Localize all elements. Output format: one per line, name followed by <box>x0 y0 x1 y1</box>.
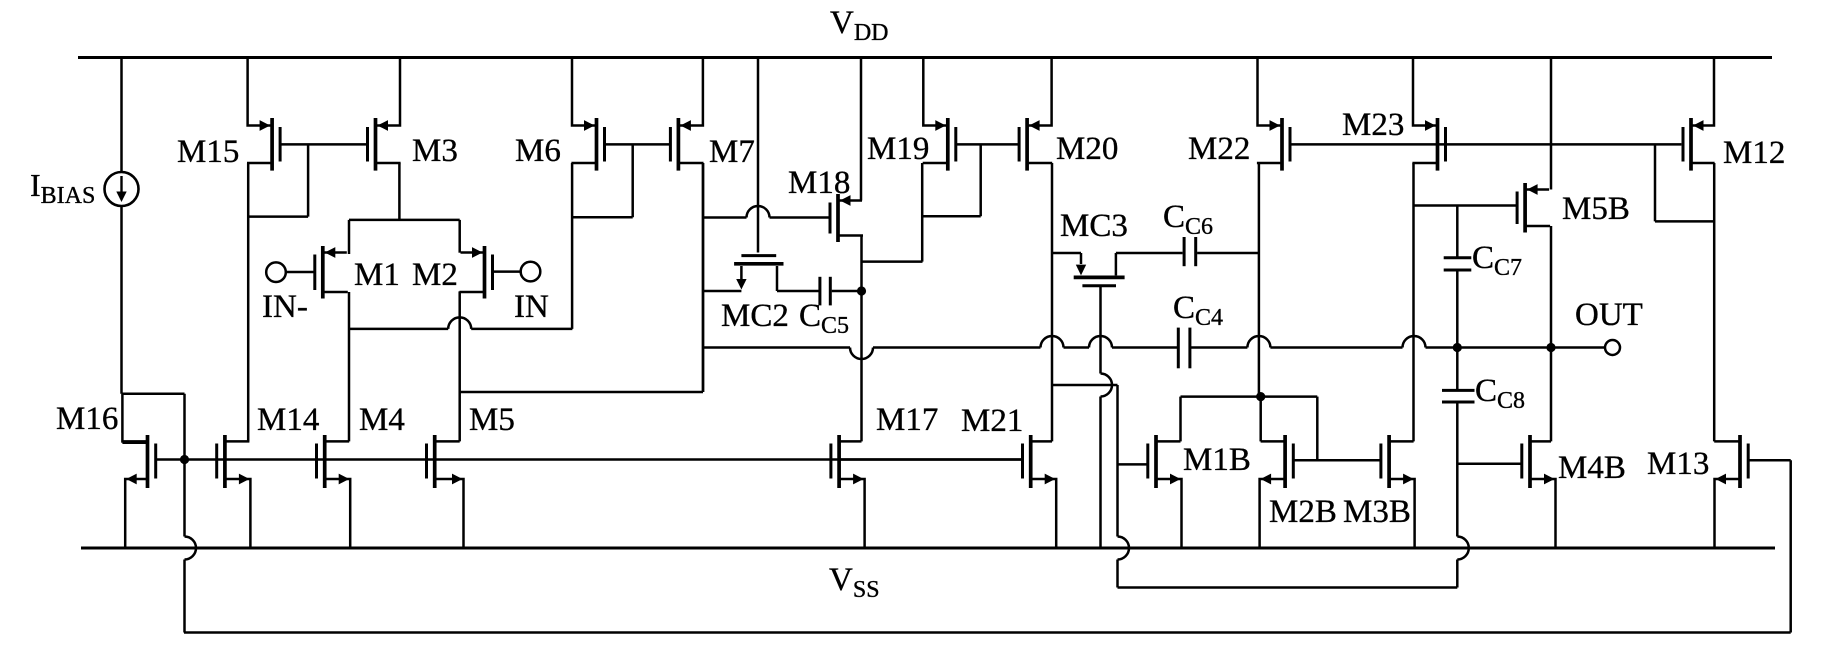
wire M4B drain up to OUT <box>1550 348 1553 442</box>
wire MC3 drain to CC6 <box>1116 252 1183 255</box>
label IN- <box>262 289 308 325</box>
hop MC3 gate over M1B wire <box>1101 374 1113 397</box>
transistor M19 <box>923 57 956 171</box>
wire M1B gate riser <box>1116 385 1119 588</box>
wire OUT line to CC8 <box>1456 348 1459 390</box>
capacitor CC8 <box>1442 390 1475 402</box>
hop M1B gate riser over VSS <box>1118 537 1130 560</box>
label OUT <box>1575 297 1643 333</box>
svg-text:M5B: M5B <box>1562 191 1630 227</box>
wire M1 drain to M4 drain <box>348 292 351 441</box>
wire M2 drain to M5 drain <box>458 291 461 441</box>
label M3 <box>412 133 458 169</box>
svg-text:IN-: IN- <box>262 289 308 325</box>
wire MC2 gate to VDD <box>757 58 760 253</box>
wire M12 drain to M13 drain <box>1713 163 1716 441</box>
wire M13 gate to bias rail <box>1748 460 1791 632</box>
wire NMOS gate bus <box>156 458 1022 461</box>
wire M4B gate stub <box>1457 463 1522 466</box>
power rail VSS <box>81 547 1775 550</box>
wire M22 gate to M23 and M12 <box>1289 143 1681 146</box>
svg-text:M19: M19 <box>867 131 929 167</box>
label M15 <box>177 134 239 170</box>
junction dot M5B-M4B drain at OUT <box>1546 343 1555 352</box>
wire M7 drain down <box>702 163 705 392</box>
label M17 <box>876 402 938 438</box>
label IN <box>514 289 549 325</box>
label M14 <box>257 402 319 438</box>
transistor M20 <box>1019 57 1052 171</box>
label M22 <box>1188 131 1250 167</box>
svg-text:OUT: OUT <box>1575 297 1643 333</box>
power rail VDD <box>78 56 1772 59</box>
svg-text:M1: M1 <box>354 257 400 293</box>
transistor M2 <box>460 246 493 299</box>
svg-text:MC3: MC3 <box>1060 208 1128 244</box>
junction dot M18 drain node <box>857 286 866 295</box>
svg-text:M3B: M3B <box>1343 494 1411 530</box>
capacitor CC5 <box>820 277 830 306</box>
wire M1 drain node to M6 gate-drain <box>349 317 572 329</box>
capacitor CC6 <box>1184 237 1196 266</box>
wire M17 gate bus to M21 <box>839 458 1022 461</box>
current source IBIAS <box>105 58 139 394</box>
svg-text:M6: M6 <box>515 133 561 169</box>
label M21 <box>961 403 1023 439</box>
label M20 <box>1056 131 1118 167</box>
label M3B <box>1343 494 1411 530</box>
svg-text:M22: M22 <box>1188 131 1250 167</box>
wire M2 drain node to second stage <box>460 163 703 392</box>
label M2B <box>1269 494 1337 530</box>
label CC4 <box>1173 290 1223 331</box>
label VDD <box>830 5 889 46</box>
svg-text:M23: M23 <box>1342 107 1404 143</box>
hop CC8 wire over VSS <box>1457 537 1469 560</box>
transistor M5B <box>1517 183 1550 233</box>
label M16 <box>56 401 118 437</box>
svg-text:M2: M2 <box>412 257 458 293</box>
label CC7 <box>1472 240 1522 281</box>
transistor M14 <box>217 435 251 548</box>
svg-text:M4B: M4B <box>1558 450 1626 486</box>
wire node to M2B-M3B gates <box>1316 397 1319 461</box>
wire M22 drain down <box>1258 163 1261 397</box>
wire M20 drain node to M1B gate line <box>1052 384 1118 387</box>
wire M1B gate stub <box>1118 463 1149 466</box>
transistor M4B <box>1522 435 1556 548</box>
svg-text:M5: M5 <box>469 402 515 438</box>
label M19 <box>867 131 929 167</box>
node rail M20 drain to CC8 (below VSS) <box>1118 586 1458 589</box>
label VSS <box>829 562 880 603</box>
wire M6 gate-drain tie <box>572 144 633 217</box>
transistor M1B <box>1148 435 1182 548</box>
svg-text:MC2: MC2 <box>721 298 789 334</box>
label IBIAS <box>30 167 95 209</box>
transistor M15 <box>247 57 280 171</box>
transistor M12 <box>1683 57 1715 171</box>
wire node to M2B drain <box>1259 397 1262 442</box>
svg-text:M1B: M1B <box>1183 442 1251 478</box>
transistor M3 <box>368 57 401 171</box>
svg-text:M20: M20 <box>1056 131 1118 167</box>
label CC8 <box>1475 373 1525 414</box>
wire M15 gate-drain tie <box>248 144 308 216</box>
wire M5B drain to OUT <box>1550 226 1553 348</box>
junction dot CC7-CC8 at OUT <box>1453 343 1462 352</box>
capacitor CC4 <box>1178 328 1190 369</box>
wire M18 drain node to M17 drain <box>860 291 863 441</box>
svg-text:M14: M14 <box>257 402 319 438</box>
svg-text:M7: M7 <box>709 134 755 170</box>
transistor M4 <box>317 435 351 548</box>
svg-text:M3: M3 <box>412 133 458 169</box>
label MC2 <box>721 298 789 334</box>
wire bias node below VSS to bottom rail <box>183 560 186 633</box>
svg-text:M21: M21 <box>961 403 1023 439</box>
transistor M13 <box>1714 435 1748 548</box>
wire M20 drain down to M21 drain <box>1051 163 1054 441</box>
wire MC3 gate down to VSS <box>1099 286 1102 548</box>
transistor M5 <box>427 435 464 548</box>
label CC5 <box>799 298 849 339</box>
input terminal IN- <box>266 262 315 282</box>
wire M2B gate to M3B gate <box>1293 459 1381 462</box>
svg-text:M16: M16 <box>56 401 118 437</box>
transistor M21 <box>1023 435 1057 548</box>
transistor MC2 <box>734 256 783 291</box>
wire M19 gate-drain tie <box>922 144 981 216</box>
wire OUT net (CC4 to OUT terminal) <box>1190 336 1605 348</box>
label M12 <box>1723 135 1785 171</box>
junction dot bias node at gate bus <box>180 455 189 464</box>
svg-text:M12: M12 <box>1723 135 1785 171</box>
wire M7 drain to M18 gate <box>703 206 831 218</box>
wire CC8 to M4B gate and below VSS <box>1456 403 1459 587</box>
svg-text:M17: M17 <box>876 402 938 438</box>
wire M23 drain to M3B drain <box>1412 163 1415 441</box>
label M5B <box>1562 191 1630 227</box>
wire M6 gate to M7 gate <box>605 143 671 146</box>
wire M15 drain to M14 drain <box>247 163 250 441</box>
transistor M22 <box>1257 57 1290 171</box>
wire M18 drain node to M19 drain <box>862 260 923 263</box>
wire MC2 source to M7 drain <box>703 290 741 293</box>
transistor M17 <box>831 435 865 548</box>
wire M5B gate line <box>1414 204 1518 207</box>
label M13 <box>1647 446 1709 482</box>
transistor M18 <box>830 194 863 242</box>
wire M18 drain down to node <box>860 236 863 292</box>
wire M19 drain down <box>921 163 924 262</box>
transistor M1 <box>315 246 348 299</box>
wire CC7 to OUT line <box>1456 271 1459 347</box>
transistor M2B <box>1260 435 1294 548</box>
wire CC6 to M22 drain <box>1197 252 1259 255</box>
hop bias wire over VSS <box>185 537 197 560</box>
wire M1B drain up <box>1179 397 1182 442</box>
label M4 <box>359 402 405 438</box>
label M5 <box>469 402 515 438</box>
svg-text:M15: M15 <box>177 134 239 170</box>
bias return rail (bottom) <box>184 631 1791 634</box>
wire M3 drain to diff pair <box>349 163 460 254</box>
svg-text:M13: M13 <box>1647 446 1709 482</box>
wire M12 gate-drain tie <box>1655 144 1714 221</box>
label MC3 <box>1060 208 1128 244</box>
transistor M16 <box>122 435 155 548</box>
wire MC2 drain to CC5 <box>777 290 819 293</box>
label M2 <box>412 257 458 293</box>
wire compensation node (M7 drain to CC4) <box>703 336 1178 359</box>
transistor M23 <box>1412 57 1445 171</box>
svg-text:M4: M4 <box>359 402 405 438</box>
transistor M6 <box>571 57 604 171</box>
label M23 <box>1342 107 1404 143</box>
input terminal IN <box>493 262 541 282</box>
label M18 <box>788 165 850 201</box>
wire M19 gate to M20 gate <box>955 143 1021 146</box>
label M6 <box>515 133 561 169</box>
output terminal OUT <box>1605 340 1620 355</box>
label M1 <box>354 257 400 293</box>
transistor M3B <box>1381 435 1415 548</box>
wire M5B gate to CC7 <box>1456 206 1459 258</box>
wire M16 drain stub <box>122 441 147 444</box>
wire M6 drain down <box>571 163 574 329</box>
wire M1B drain node to M2B <box>1181 395 1318 398</box>
wire CC5 to M18 drain node <box>832 290 862 293</box>
label M4B <box>1558 450 1626 486</box>
wire IBIAS node to M16 <box>122 394 185 537</box>
svg-text:M18: M18 <box>788 165 850 201</box>
label M7 <box>709 134 755 170</box>
capacitor CC7 <box>1444 258 1472 270</box>
wire M18 source to VDD <box>860 58 863 201</box>
transistor M7 <box>670 57 703 171</box>
label CC6 <box>1163 199 1213 240</box>
svg-text:IN: IN <box>514 289 549 325</box>
svg-text:M2B: M2B <box>1269 494 1337 530</box>
wire M20 drain to MC3 source <box>1052 252 1081 255</box>
wire M5B source to VDD <box>1550 58 1553 190</box>
transistor MC3 <box>1074 253 1125 286</box>
label M1B <box>1183 442 1251 478</box>
wire M15 gate to M3 gate <box>280 143 367 146</box>
junction dot M22 drain node <box>1256 392 1265 401</box>
